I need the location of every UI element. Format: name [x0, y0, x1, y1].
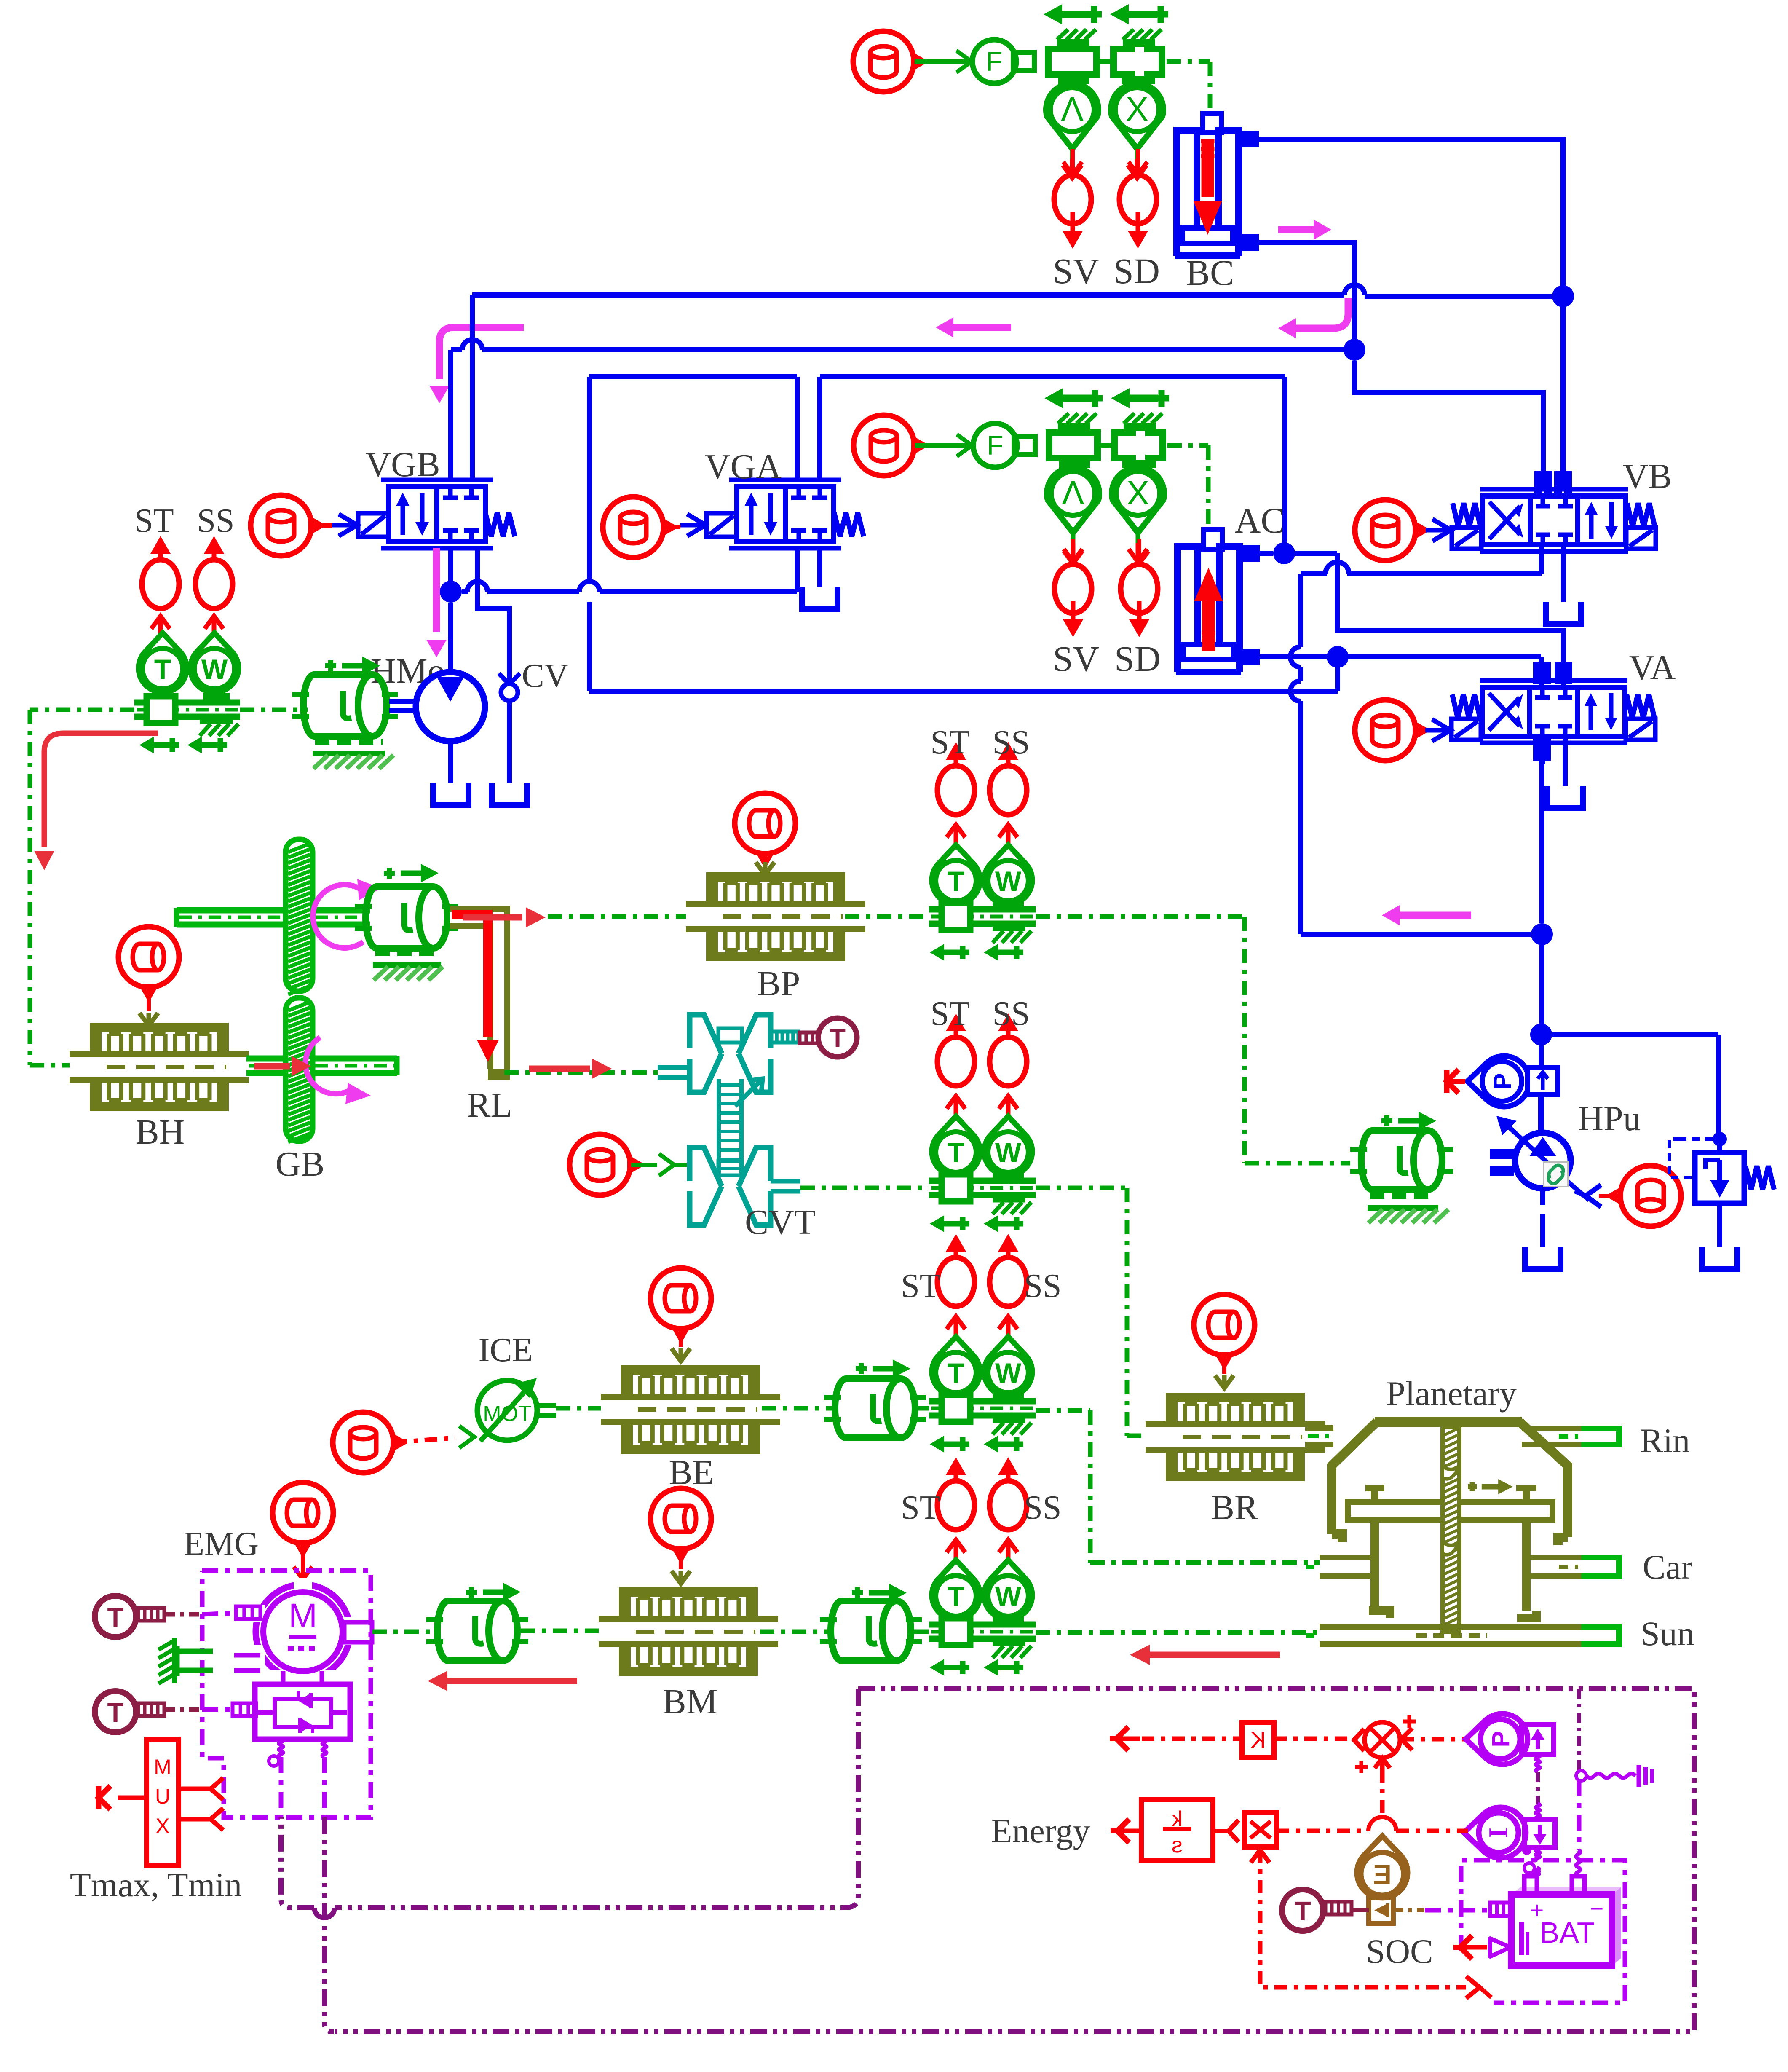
- svg-text:W: W: [995, 1581, 1022, 1612]
- svg-text:SD: SD: [1114, 638, 1161, 679]
- modulated transformer chain F/&#923;/X for AC: [973, 388, 1169, 562]
- svg-text:ST: ST: [901, 1268, 940, 1305]
- support base: [373, 953, 443, 980]
- junction node: [1531, 923, 1553, 945]
- label Rin: [1640, 1421, 1690, 1460]
- power flow arrow: [1130, 1645, 1280, 1665]
- svg-text:EMG: EMG: [184, 1525, 259, 1563]
- svg-text:P: P: [1489, 1073, 1516, 1090]
- pipe junction to pump HMo: [448, 603, 453, 678]
- pipe junction to VB port: [1354, 361, 1543, 489]
- valve VGA: [729, 480, 841, 548]
- svg-text:CV: CV: [522, 657, 568, 694]
- torque sensor T: [139, 616, 187, 692]
- signal wire CVT out: [800, 1186, 929, 1190]
- ground hatch: [158, 1638, 174, 1683]
- converter wire left: [269, 1739, 283, 1817]
- sensor SV (BC): [1054, 149, 1091, 249]
- svg-text:Λ: Λ: [1062, 474, 1084, 512]
- signal wire: [556, 1406, 621, 1411]
- signal wire RL to CVT: [504, 1070, 658, 1075]
- torque in RL: [452, 914, 499, 1062]
- label AC: [1234, 500, 1285, 541]
- svg-text:VA: VA: [1629, 648, 1676, 687]
- shaft inertia EMG: [426, 1583, 528, 1661]
- machine terminal: [236, 1606, 260, 1619]
- torque sensor T3: [1282, 1890, 1369, 1931]
- rotation arrow: [305, 1037, 371, 1104]
- svg-text:Λ: Λ: [1061, 90, 1084, 128]
- sensor ST oval: [142, 536, 179, 608]
- valve VB: [1480, 471, 1628, 552]
- valve VGB: [381, 480, 493, 548]
- signal wire to BC rod: [1167, 62, 1210, 113]
- signal wire to sun: [1036, 1630, 1320, 1635]
- signal source for VGB: [251, 495, 322, 556]
- label SOC: [1366, 1932, 1433, 1970]
- svg-text:T: T: [154, 654, 171, 685]
- pipe into pump: [1538, 1095, 1544, 1134]
- label BP: [757, 964, 800, 1003]
- svg-text:T: T: [830, 1024, 846, 1053]
- CVT upper pulley: [658, 1015, 771, 1092]
- signal terminal: [1447, 1070, 1465, 1093]
- power flow arrow: [428, 1671, 577, 1691]
- svg-text:GB: GB: [276, 1145, 325, 1184]
- accumulator cylinder AC: [1176, 530, 1241, 672]
- signal source for VGA: [603, 497, 675, 558]
- pump ports: [1490, 1151, 1514, 1174]
- MUX output terminal: [99, 1786, 147, 1809]
- junction node: [440, 581, 462, 603]
- ring shaft Rin: [1522, 1426, 1622, 1447]
- feedback wire SOC to multiplier: [1251, 1850, 1491, 1998]
- signal wire: [165, 1613, 234, 1614]
- MUX inputs: [179, 1778, 223, 1830]
- svg-text:RL: RL: [467, 1086, 512, 1125]
- svg-text:s: s: [1172, 1833, 1183, 1858]
- signal wire to BR: [1036, 1188, 1167, 1436]
- shaft link: [240, 708, 308, 712]
- friction brake BR: [1146, 1393, 1325, 1481]
- flow source box: [1525, 1820, 1555, 1847]
- label RL: [467, 1086, 512, 1125]
- svg-text:Energy: Energy: [991, 1812, 1090, 1850]
- battery boundary box: [1461, 1860, 1625, 2003]
- svg-text:M: M: [154, 1755, 171, 1779]
- signal wire: [915, 434, 973, 456]
- svg-text:BR: BR: [1211, 1488, 1258, 1527]
- svg-text:T: T: [1294, 1896, 1311, 1926]
- label BC: [1186, 252, 1234, 293]
- svg-text:T: T: [107, 1697, 123, 1728]
- sensor SV (AC): [1055, 539, 1092, 637]
- signal wire: [1416, 519, 1451, 541]
- svg-text:SS: SS: [993, 724, 1030, 761]
- solenoid of VA left: [1451, 719, 1481, 740]
- sensor column ST/SS (CVT shaft): [929, 1013, 1036, 1232]
- label BH: [136, 1112, 185, 1152]
- junction node: [1273, 542, 1295, 564]
- label Tmax Tmin: [70, 1866, 242, 1904]
- SOC terminal: [1453, 1935, 1510, 1959]
- pipe pump to tank: [1540, 1189, 1545, 1247]
- torque sensor T (CVT): [800, 1018, 857, 1057]
- pipe VA bottom to junction: [1539, 738, 1545, 923]
- svg-text:ST: ST: [134, 502, 174, 539]
- signal source for CVT ratio: [570, 1134, 641, 1195]
- variable pump HPu: [1496, 1116, 1589, 1200]
- pipe junction to VGA (with hops): [462, 548, 797, 592]
- valve VA: [1480, 662, 1627, 761]
- converter wire to box bottom: [324, 1817, 334, 2032]
- tank under HPu: [1525, 1247, 1560, 1269]
- planet pin: [1516, 1486, 1536, 1502]
- flow arrow: [1278, 220, 1331, 240]
- converter terminal: [233, 1703, 256, 1716]
- svg-text:U: U: [155, 1785, 170, 1808]
- signal source for EMG: [273, 1482, 333, 1554]
- shaft node: [134, 696, 240, 723]
- label Planetary: [1386, 1374, 1517, 1413]
- svg-text:T: T: [948, 1137, 964, 1168]
- sensor P: [1466, 1714, 1528, 1764]
- carrier shaft left: [1306, 1557, 1371, 1576]
- signal wire to carrier: [1036, 1410, 1320, 1563]
- pipe bus C: [589, 377, 1285, 691]
- solenoid of VB left: [1452, 528, 1481, 549]
- label SV (AC): [1053, 638, 1099, 679]
- svg-text:T: T: [948, 1357, 964, 1388]
- tank under VA: [1547, 786, 1583, 808]
- ratio arrow: [735, 1079, 763, 1106]
- pipe loop line y1640: [589, 667, 1338, 691]
- inertia on GB shaft: [355, 864, 458, 948]
- label HPu: [1578, 1099, 1641, 1138]
- svg-text:E: E: [1373, 1859, 1392, 1890]
- svg-text:ST: ST: [930, 995, 969, 1032]
- pipe bus A (VGB to junction): [472, 285, 1552, 474]
- flow arrow: [1278, 298, 1348, 338]
- brake cylinder BC: [1175, 113, 1240, 256]
- carrier arm left: [1369, 1520, 1390, 1618]
- label SD (AC): [1114, 638, 1161, 679]
- label SS: [993, 724, 1030, 761]
- svg-text:K: K: [1250, 1727, 1266, 1753]
- solenoid of VGA: [680, 513, 737, 537]
- label VGA: [705, 447, 782, 486]
- converter links to machine: [283, 1671, 322, 1684]
- label HMo: [370, 651, 445, 691]
- svg-text:Sun: Sun: [1641, 1614, 1694, 1653]
- signal source for BM: [650, 1488, 711, 1560]
- svg-text:Tmax, Tmin: Tmax, Tmin: [70, 1866, 242, 1904]
- torque flow arrow: [34, 733, 158, 870]
- power flow arrow: [254, 1056, 311, 1076]
- CVT lower pulley: [690, 1147, 800, 1225]
- svg-text:X: X: [1126, 90, 1148, 128]
- label VB: [1623, 457, 1672, 496]
- flow arrow: [429, 327, 524, 403]
- friction clutch BE: [601, 1365, 780, 1454]
- direction arrows: [139, 737, 227, 753]
- planetary speed arrow: [1468, 1479, 1513, 1494]
- svg-text:ST: ST: [930, 724, 969, 761]
- spring of VB right: [1627, 503, 1655, 527]
- svg-text:Rin: Rin: [1640, 1421, 1690, 1460]
- signal wire to AC rod: [1167, 445, 1208, 530]
- power flow arrow: [529, 1059, 612, 1079]
- label GB: [276, 1145, 325, 1184]
- sensor column ST/SS (engine shaft): [929, 1234, 1036, 1453]
- svg-text:W: W: [201, 654, 228, 685]
- signal wire: [756, 855, 774, 875]
- signal source for BH: [118, 927, 179, 998]
- signal wire: [631, 1154, 687, 1176]
- friction clutch BM: [599, 1587, 778, 1676]
- signal wire: [312, 523, 332, 528]
- label ST: [930, 724, 969, 761]
- multiplexer MUX: [147, 1739, 179, 1866]
- svg-text:BAT: BAT: [1540, 1916, 1595, 1949]
- label SV: [1053, 251, 1099, 291]
- label EMG: [184, 1525, 259, 1563]
- signal source for BC duty cycle: [853, 31, 925, 92]
- shaft stub: [538, 1406, 556, 1415]
- integrator block k/s: [1141, 1799, 1213, 1860]
- gain block K: [1242, 1723, 1274, 1757]
- label Energy: [991, 1812, 1090, 1850]
- control boundary box: [335, 1689, 1694, 2032]
- link icon: [1544, 1162, 1568, 1187]
- torque sensor T1: [95, 1596, 164, 1637]
- machine terminals lower: [234, 1655, 260, 1670]
- signal wire: [918, 1406, 929, 1411]
- signal wire: [139, 988, 158, 1026]
- planetary sun column: [1443, 1426, 1459, 1632]
- friction brake BP: [686, 872, 865, 961]
- spring of VA left: [1452, 694, 1480, 718]
- svg-text:W: W: [995, 866, 1022, 897]
- junction node: [1552, 285, 1574, 307]
- svg-text:ICE: ICE: [479, 1332, 533, 1369]
- junction node: [1327, 646, 1349, 668]
- multiplier box X: [1213, 1812, 1277, 1847]
- electric machine EMG: [250, 1578, 359, 1685]
- shaft inertia BE: [824, 1359, 926, 1438]
- relief valve: [1669, 1132, 1774, 1203]
- svg-text:T: T: [107, 1602, 123, 1632]
- svg-text:P: P: [1487, 1731, 1515, 1748]
- signal source for HPu displacement: [1609, 1166, 1681, 1226]
- signal source for VB: [1355, 500, 1427, 560]
- svg-text:ST: ST: [901, 1489, 940, 1526]
- torque sensor T2: [95, 1691, 164, 1732]
- svg-text:VGB: VGB: [365, 445, 440, 484]
- flow arrow: [426, 548, 447, 657]
- pipe bus B (VGB to junction): [451, 340, 1344, 474]
- pipe VA tank port: [1563, 738, 1568, 786]
- label SS: [197, 502, 235, 539]
- signal wire: [1575, 1185, 1619, 1207]
- shaft inertia: [292, 657, 398, 736]
- sensor column ST/SS (motor shaft): [929, 1457, 1036, 1676]
- signal wire to HPu: [1036, 917, 1350, 1163]
- signal wire from node: [30, 710, 134, 1065]
- svg-text:HPu: HPu: [1578, 1099, 1641, 1138]
- pipe VGB top ports: [451, 295, 472, 480]
- svg-text:BP: BP: [757, 964, 800, 1003]
- svg-text:T: T: [948, 866, 964, 897]
- sensor E box: [1369, 1897, 1393, 1923]
- pipe BC upper port to VB: [1239, 134, 1563, 489]
- pipe VGA top ports: [797, 377, 820, 480]
- signal source for VA: [1355, 700, 1427, 761]
- label CVT: [745, 1203, 816, 1242]
- svg-text:SS: SS: [1024, 1489, 1062, 1526]
- pipe pump to tank: [448, 741, 453, 783]
- converter wire right: [322, 1739, 327, 1817]
- svg-text:SV: SV: [1053, 251, 1099, 291]
- spring of VB left: [1453, 503, 1480, 527]
- P-I chain wires: [1522, 1755, 1540, 1876]
- svg-text:I: I: [1483, 1828, 1513, 1838]
- machine output stub: [344, 1622, 372, 1642]
- spring of VGA: [834, 513, 864, 536]
- signal wire: [762, 1406, 836, 1411]
- upper shaft: [177, 908, 370, 927]
- battery terminal: [1490, 1903, 1510, 1916]
- tank under VGA: [802, 548, 838, 609]
- striped link to torque sensor: [771, 1032, 798, 1043]
- signal source for ICE: [333, 1412, 404, 1473]
- signal wire: [294, 1544, 312, 1579]
- pipe VGB to pump junction: [448, 548, 453, 592]
- label ST: [901, 1268, 940, 1305]
- gearbox GB gear upper: [286, 839, 313, 994]
- signal wire RL to BP: [548, 914, 689, 919]
- label ST: [930, 995, 969, 1032]
- label Sun: [1641, 1614, 1694, 1653]
- svg-text:SS: SS: [197, 502, 235, 539]
- shaft inertia BM: [820, 1584, 922, 1661]
- effort source box: [1522, 1725, 1554, 1755]
- svg-text:+: +: [1530, 1897, 1544, 1923]
- sensor E: [1357, 1836, 1408, 1898]
- svg-text:Car: Car: [1643, 1548, 1692, 1586]
- plus sign: [1403, 1715, 1416, 1728]
- lower shaft: [246, 1056, 397, 1075]
- machine shaft out: [372, 1630, 432, 1634]
- label SS: [993, 995, 1030, 1032]
- power flow arrow: [463, 907, 546, 927]
- svg-text:W: W: [995, 1137, 1022, 1168]
- pipe VB return line y1362: [1301, 562, 1542, 574]
- CVT belt: [719, 1079, 741, 1176]
- pipe bus C down to AC junction: [1282, 377, 1287, 542]
- wire E box to BAT: [1393, 1908, 1490, 1912]
- junction node: [1530, 1024, 1552, 1045]
- tank under relief valve: [1702, 1247, 1737, 1269]
- output terminal: [1110, 1727, 1242, 1750]
- shaft inertia HPu: [1350, 1112, 1453, 1190]
- label SS: [1024, 1489, 1062, 1526]
- svg-text:Planetary: Planetary: [1386, 1374, 1517, 1413]
- signal wire: [664, 525, 680, 529]
- rigid link RL: [450, 917, 510, 1074]
- pipe AC top port line: [1239, 548, 1337, 558]
- label SS: [1024, 1268, 1062, 1305]
- ground: [177, 1646, 213, 1676]
- energy terminal: [1111, 1819, 1141, 1843]
- svg-text:SOC: SOC: [1366, 1932, 1433, 1970]
- label CV: [522, 657, 568, 694]
- hydraulic motor HMo: [389, 672, 485, 741]
- friction brake BH: [70, 1023, 249, 1111]
- svg-text:SD: SD: [1113, 251, 1160, 291]
- engine ICE (MOT): [477, 1378, 537, 1441]
- solenoid of VGB: [332, 513, 388, 537]
- pipe to VA port B: [1337, 553, 1563, 685]
- svg-text:VB: VB: [1623, 457, 1672, 496]
- svg-text:W: W: [995, 1357, 1022, 1388]
- solenoid of VB right: [1626, 528, 1656, 549]
- signal source for BE: [650, 1268, 711, 1340]
- multiplier node: [1274, 1722, 1400, 1758]
- solenoid of VA right: [1626, 719, 1655, 740]
- svg-text:CVT: CVT: [745, 1203, 816, 1242]
- svg-text:SV: SV: [1053, 638, 1099, 679]
- planetary housing: [1332, 1417, 1568, 1545]
- svg-text:BH: BH: [136, 1112, 185, 1152]
- pipe junction down to HPu: [1539, 945, 1544, 1024]
- sensor box on line: [1528, 1045, 1558, 1095]
- svg-text:F: F: [986, 46, 1002, 77]
- svg-text:AC: AC: [1234, 500, 1285, 541]
- sensor SD (AC): [1121, 539, 1158, 637]
- label ST: [134, 502, 174, 539]
- signal wire: [1215, 1356, 1234, 1388]
- signal wire: [672, 1330, 690, 1361]
- signal wire: [760, 1630, 829, 1634]
- pipe BC lower port down: [1239, 238, 1354, 340]
- label BM: [663, 1682, 718, 1721]
- modulated transformer chain F/&#923;/X for BC: [972, 4, 1168, 178]
- sensor SD (BC): [1119, 149, 1156, 249]
- svg-text:M: M: [289, 1597, 317, 1635]
- signal wire: [165, 1707, 233, 1712]
- ground chain: [1576, 1689, 1652, 1787]
- sensor I: [1464, 1807, 1526, 1858]
- pipe VB bottom left port: [1539, 547, 1544, 574]
- signal wire: [915, 51, 972, 72]
- signal source for BP: [735, 793, 795, 865]
- gearbox GB gear lower: [286, 998, 313, 1142]
- label ST: [901, 1489, 940, 1526]
- sensor SS oval: [195, 536, 233, 608]
- label BR: [1211, 1488, 1258, 1527]
- speed sensor W: [190, 616, 238, 692]
- tank under VB: [1546, 602, 1581, 624]
- svg-text:SS: SS: [1024, 1268, 1062, 1305]
- wire to BAT right terminal: [1576, 1780, 1580, 1876]
- support base: [1368, 1196, 1448, 1223]
- plus sign: [1355, 1761, 1368, 1773]
- wire P to multiplier: [1401, 1728, 1470, 1750]
- label ICE: [479, 1332, 533, 1369]
- support: [200, 721, 238, 736]
- battery BAT: [1511, 1876, 1621, 1966]
